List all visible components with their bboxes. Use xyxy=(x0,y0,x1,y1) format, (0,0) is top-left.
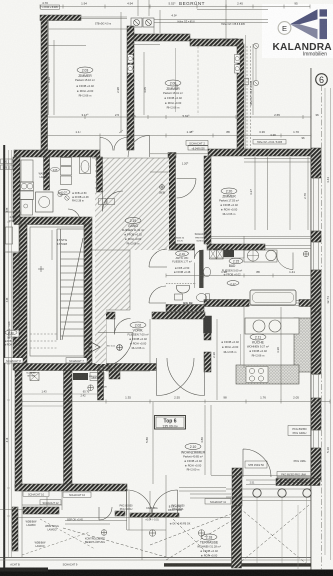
vertical dim living room xyxy=(204,405,206,475)
room 2.20 bottom boundary xyxy=(211,236,311,238)
SCHACHT labels bottom of stair xyxy=(4,358,23,363)
wall wohnzimmer left xyxy=(64,371,73,489)
kitchen sink counter top xyxy=(245,318,299,334)
PKG note right xyxy=(288,426,311,436)
wall vertical mid (corridor/vorraum east) A xyxy=(204,156,211,244)
wall east exterior seg4 xyxy=(311,270,321,312)
east wall lower window xyxy=(312,375,320,399)
room 2.19 GANG label xyxy=(122,218,144,246)
double door to living room right leaf xyxy=(167,358,205,396)
entrance hatch strip xyxy=(95,310,106,364)
wall east exterior seg1 xyxy=(311,148,321,178)
kitchen zone left edge line xyxy=(240,334,242,365)
vertical dim kitchen xyxy=(280,307,282,400)
logo i bar xyxy=(320,19,328,39)
dashed boundary below wc xyxy=(166,283,196,285)
wall stairwell right xyxy=(84,224,92,364)
shaft boxes with cross xyxy=(210,249,217,260)
svg-text:BO 2.01: BO 2.01 xyxy=(107,346,116,348)
left neighbour STGH label xyxy=(4,330,18,346)
BAD bidet xyxy=(203,267,210,277)
wall small bottom-left xyxy=(23,507,59,514)
vertical dims in room 2.20 xyxy=(254,157,256,230)
logo K chevron bottom arm (light) xyxy=(290,24,318,39)
wall below wc xyxy=(166,305,204,312)
top dimension chain xyxy=(40,6,310,8)
door sill strip xyxy=(130,513,179,517)
wall DU / corridor divider xyxy=(97,157,103,192)
SCHACHT 10 xyxy=(23,491,49,496)
toilet top xyxy=(80,157,91,174)
dim line left wing bottom xyxy=(45,116,166,118)
kitchen lower counter with stove xyxy=(236,365,299,384)
wall bottom right horizontal (terrace door wall) xyxy=(276,479,320,486)
room 2.01 WOHNZIMMER label xyxy=(181,444,206,472)
corridor door to DU room xyxy=(103,191,124,212)
left building section line xyxy=(3,145,5,576)
parapet lines above BEGRUENT strip xyxy=(154,20,268,35)
wall vestibule top B xyxy=(152,312,205,319)
gang to wc door xyxy=(149,249,167,267)
shaft box left of abstell xyxy=(30,373,39,381)
DU room small labels xyxy=(51,168,60,172)
vertical dim in room 2.03 xyxy=(120,12,122,133)
dark service box xyxy=(73,373,88,380)
property dash-dot line right xyxy=(320,85,322,570)
boxed level label top-left xyxy=(41,5,60,9)
niveau symbol abstell xyxy=(88,385,94,391)
shower square xyxy=(36,192,54,212)
bottom-left extra lines xyxy=(61,491,63,510)
kitchen floor level text block xyxy=(221,340,239,354)
window sill lines bottom xyxy=(179,487,226,489)
terrace boundary verticals xyxy=(15,491,230,560)
dim line row2 xyxy=(45,135,311,137)
wall vertical bottom centre upper xyxy=(232,468,242,506)
wc to bad door xyxy=(195,250,204,259)
landing cross mark xyxy=(38,266,44,272)
svg-text:BG 2: BG 2 xyxy=(4,162,10,164)
column axis lines xyxy=(257,498,307,571)
wall wc/bad divider xyxy=(199,250,203,288)
svg-text:⊕ ROH -2.10: ⊕ ROH -2.10 xyxy=(4,344,18,347)
room 2.15 BAD label xyxy=(222,258,243,276)
metall box border xyxy=(90,373,104,381)
wall vertical east of top rooms xyxy=(237,44,244,155)
wall west outer lower xyxy=(15,371,22,489)
wall left neighbour B xyxy=(13,253,20,330)
svg-text:STGH: STGH xyxy=(7,336,15,340)
wall stairwell top xyxy=(14,217,92,225)
floor drains xyxy=(58,192,62,196)
bottom dark wall segment right xyxy=(164,563,311,566)
wall vertical bottom centre lower xyxy=(232,506,242,568)
wall vestibule bottom xyxy=(100,364,156,371)
wall vestibule top A xyxy=(100,312,115,319)
left margin small labels xyxy=(1,159,13,442)
dim line right upper xyxy=(166,116,311,118)
wall top-left exterior A xyxy=(40,15,81,21)
GEDACHT label xyxy=(186,141,208,146)
svg-text:B/TT 14/8: B/TT 14/8 xyxy=(97,387,107,389)
round column 2 xyxy=(278,489,286,497)
room 2.16 WC label xyxy=(172,237,192,274)
stair run diagonal xyxy=(62,238,83,340)
black scan band at bottom xyxy=(0,570,333,576)
niveau symbols terrace xyxy=(101,530,205,537)
niveau symbol corridor xyxy=(160,185,165,190)
wall GEDACHT above room 2.20 xyxy=(208,149,321,156)
living room top boundary xyxy=(106,370,150,372)
wall bath / kitchen xyxy=(204,300,249,307)
svg-text:4.14: 4.14 xyxy=(7,437,9,442)
wall vestibule left xyxy=(100,319,106,370)
boxed hoehe label xyxy=(253,140,286,145)
stairwell inner border xyxy=(30,227,84,356)
svg-text:STB 25: STB 25 xyxy=(3,168,11,170)
lightwell dim lines xyxy=(22,394,100,406)
svg-text:3.46: 3.46 xyxy=(7,297,9,302)
wall left edge lower xyxy=(12,507,18,551)
wall east exterior seg2 xyxy=(311,231,321,242)
vertical dotted service lines xyxy=(246,46,248,150)
wall above bath right part xyxy=(207,244,265,250)
terrace french door left xyxy=(127,490,153,516)
wall horizontal below left wing xyxy=(14,150,100,157)
double door to living room left leaf xyxy=(157,358,195,396)
vestibule shaft cross xyxy=(109,368,120,379)
washer box xyxy=(20,191,34,200)
wall left outer of left wing xyxy=(41,20,48,152)
window circle symbols on wall 237 xyxy=(253,43,258,48)
window symbols top (double box with circles) xyxy=(131,18,154,27)
wall top of left wing xyxy=(130,34,190,41)
logo K chevron top arm (dark) xyxy=(290,9,318,24)
wall corridor top step block xyxy=(168,153,176,158)
room 2.11 KUECHE label xyxy=(247,334,269,358)
BAD toilet sideways xyxy=(197,294,207,302)
shower tray tall xyxy=(21,200,33,216)
wall east exterior seg5 kitchen xyxy=(311,312,321,374)
small wc door xyxy=(149,286,166,303)
sink counter left xyxy=(21,160,33,182)
wall DU divider vertical xyxy=(44,157,50,190)
double washbasin xyxy=(244,250,277,262)
svg-text:2.88: 2.88 xyxy=(7,207,9,212)
dim line bath row xyxy=(166,275,311,277)
lower-left door arc xyxy=(99,507,112,520)
room 2.20 ZIMMER label xyxy=(219,188,239,216)
room 2.08 ZIMMER label xyxy=(163,80,183,110)
kitchen counter along east wall xyxy=(294,318,311,372)
far right dimension verticals xyxy=(324,88,326,555)
secondary top dim line right part xyxy=(197,9,268,11)
vertical dim right of 2.03 xyxy=(143,52,145,115)
kitchen boundary line xyxy=(243,307,245,368)
svg-text:2.30: 2.30 xyxy=(8,331,14,335)
left margin dimension lines xyxy=(7,150,12,557)
stairwell entry door xyxy=(68,209,80,221)
window boxes on wall 237 xyxy=(128,55,241,74)
round column 1 xyxy=(253,489,261,497)
round column 3 xyxy=(303,489,311,497)
svg-text:2.42: 2.42 xyxy=(80,393,86,397)
niveau symbol bath xyxy=(303,251,309,257)
window sill lines east wall xyxy=(312,177,320,179)
wall top right part xyxy=(190,39,243,46)
stair treads xyxy=(61,251,85,253)
TOP 6 title box xyxy=(155,416,186,430)
wall vertical mid C xyxy=(204,352,211,372)
vertical dim stair left xyxy=(51,230,53,260)
single door top wing xyxy=(128,136,150,158)
circled plan number 6 xyxy=(316,74,328,86)
left neighbour unit box xyxy=(5,212,21,252)
wall east exterior seg6 xyxy=(311,398,321,430)
small boxes near door xyxy=(99,199,107,205)
wall corridor right xyxy=(169,156,176,250)
wall bath / kitchen right xyxy=(299,300,321,307)
wall left neighbour A xyxy=(13,157,20,222)
vestibule entrance door xyxy=(98,333,133,368)
corridor hatch zone xyxy=(95,158,169,310)
bathtub xyxy=(250,290,296,305)
room 2.08 inner dim verticals xyxy=(175,48,177,112)
logo white backdrop xyxy=(262,4,333,58)
stair rail double line xyxy=(56,229,58,340)
terrace french door right xyxy=(152,490,178,516)
WC toilet mid xyxy=(177,286,190,294)
stair direction arrow xyxy=(89,341,100,353)
wall east exterior seg7 xyxy=(311,448,321,480)
room 2.02 VORR label xyxy=(127,322,148,350)
svg-text:⊕ FFB -2.05: ⊕ FFB -2.05 xyxy=(5,340,18,343)
schacht 10 box lower xyxy=(63,492,91,497)
horizontal line below top wall xyxy=(48,45,87,47)
bottom plan border double line xyxy=(0,557,311,559)
room 2.07 DU/WC label xyxy=(58,189,89,202)
right plan border line xyxy=(310,68,313,570)
VORR closet line xyxy=(149,319,151,364)
room 2.03 ZIMMER label xyxy=(75,67,95,98)
vestibule shaft box xyxy=(109,368,120,379)
dim line above living room xyxy=(22,401,330,403)
wall between ZIMMER 2.03 / 2.08 xyxy=(127,26,134,150)
room 2.18 TERRASSE label xyxy=(197,534,221,558)
extended dashed roof lines xyxy=(63,512,236,557)
stair dashed under-run xyxy=(30,334,57,348)
kitchen/terrace door xyxy=(243,449,271,477)
terrace left dashes xyxy=(22,519,95,555)
wc cell lines xyxy=(194,263,196,289)
roof overhang dashed diagonals xyxy=(166,505,309,566)
horizontal mid lines corridor xyxy=(92,157,169,159)
logo circle E xyxy=(278,22,291,35)
wall left neighbour C xyxy=(13,337,20,370)
small wc oval xyxy=(227,281,239,286)
double door top wing left leaf xyxy=(100,138,113,151)
double washbasin left xyxy=(21,182,34,191)
double door top wing right leaf xyxy=(114,138,127,151)
wall vertical mid B xyxy=(204,316,212,333)
STB note box xyxy=(245,461,267,468)
logo i dot xyxy=(320,9,328,16)
vertical dim top mid xyxy=(225,0,227,44)
bad door arc xyxy=(276,253,293,270)
wall stub left of sill xyxy=(115,511,125,516)
room 2.20 door xyxy=(177,179,197,199)
door pivot niveau xyxy=(117,345,123,351)
wall above bath xyxy=(175,244,195,250)
kitchen window lines xyxy=(249,301,299,306)
wall stairwell bottom xyxy=(14,364,107,371)
wall abstell right xyxy=(98,371,104,401)
wall stairwell left xyxy=(19,224,27,364)
wall bottom left horizontal xyxy=(15,484,127,491)
corridor to vestibule door xyxy=(115,319,131,335)
bath room boundaries xyxy=(211,257,244,259)
appliance stack xyxy=(61,158,72,166)
